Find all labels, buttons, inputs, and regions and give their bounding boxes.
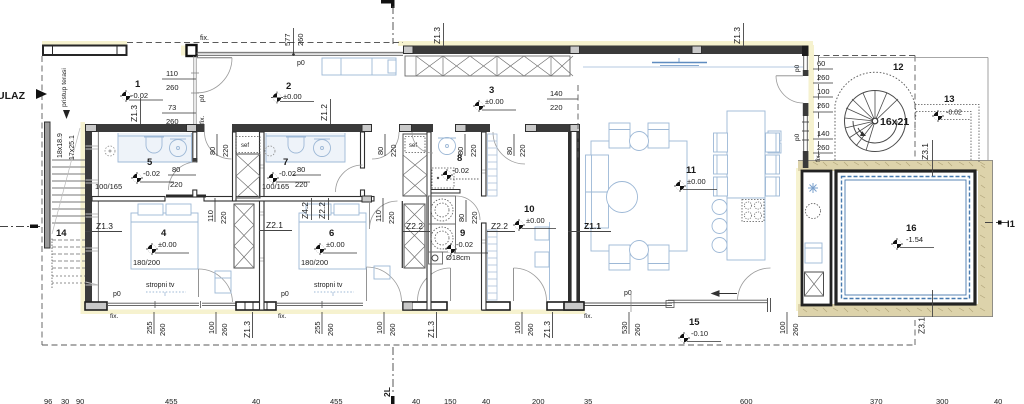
top side table: [630, 132, 649, 151]
svg-text:80: 80: [172, 165, 180, 174]
living room sofa group: [586, 123, 688, 270]
wall label Z1.3 room1: [129, 98, 141, 124]
toilet room7: [288, 137, 304, 153]
room 6 label: [301, 228, 357, 267]
svg-text:±0.00: ±0.00: [687, 177, 706, 186]
dim 140/220 kitchen pass: [547, 85, 578, 160]
corridor west glass mullion: [191, 56, 199, 124]
sliding direction arrow: [712, 291, 737, 296]
toilet room5: [146, 137, 162, 153]
wall label Z1.1: [568, 221, 611, 232]
sef closet near room 5: [233, 132, 261, 201]
svg-text:±0.00: ±0.00: [283, 92, 302, 101]
svg-text:9: 9: [460, 228, 465, 239]
door dim rotated room4: [206, 198, 228, 224]
dining chairs right: [766, 133, 780, 152]
svg-text:90: 90: [76, 397, 84, 404]
svg-text:100: 100: [207, 321, 216, 334]
svg-text:96: 96: [44, 397, 52, 404]
svg-text:Z3.1: Z3.1: [917, 317, 927, 334]
kitchen island: [712, 198, 765, 260]
room 3 label: [473, 85, 516, 112]
svg-text:140: 140: [817, 129, 830, 138]
bottom cut dimension chain: [44, 397, 1002, 404]
towel ladder hall10 wall: [488, 134, 498, 300]
svg-text:15: 15: [689, 317, 700, 328]
svg-text:Z2.2: Z2.2: [317, 202, 327, 219]
living east door arc to pool terrace: [738, 268, 771, 300]
svg-text:fix.: fix.: [278, 313, 287, 320]
south pier block 4: [547, 302, 583, 310]
wall label Z2.1: [259, 220, 292, 231]
svg-text:16x21: 16x21: [880, 116, 909, 128]
svg-text:80: 80: [457, 214, 466, 222]
svg-text:-0.02: -0.02: [452, 166, 469, 175]
svg-text:140: 140: [550, 89, 563, 98]
outdoor stair 14: [45, 122, 86, 288]
wall label Z1.2 corridor: [319, 99, 331, 124]
svg-text:-1.54: -1.54: [906, 235, 923, 244]
bathroom 8 fixtures: [432, 138, 456, 189]
door arc hall10 from corridor: [493, 132, 525, 164]
svg-text:260: 260: [817, 101, 830, 110]
drain box room9: [429, 252, 443, 264]
svg-text:-0.02: -0.02: [131, 91, 148, 100]
left sofa: [586, 155, 609, 228]
svg-text:100: 100: [817, 87, 830, 96]
dining table: [714, 111, 780, 198]
wall label Z2.2 b: [487, 221, 515, 232]
svg-text:2: 2: [286, 81, 291, 92]
door dim fraction bathroom7: [293, 165, 321, 189]
svg-text:16: 16: [906, 223, 917, 234]
area 13 dotted outline: [915, 94, 979, 162]
svg-text:80: 80: [376, 147, 385, 155]
floor drain room5: [105, 146, 115, 156]
south terrace door arc room4: [199, 269, 233, 302]
nightstand room4: [215, 271, 231, 293]
plot boundary dashed right vertical: [914, 317, 916, 345]
room 8 label: [441, 153, 480, 181]
east wall door leaf and arc: [776, 75, 803, 77]
wall between rooms 8 and 9: [431, 190, 460, 194]
svg-text:fix.: fix.: [200, 35, 209, 42]
svg-text:5: 5: [147, 157, 153, 168]
swimming pool 16: [836, 171, 975, 304]
nightstand room6: [374, 266, 390, 279]
svg-text:7: 7: [283, 157, 288, 168]
svg-text:Z2.2: Z2.2: [491, 221, 508, 231]
svg-text:260: 260: [817, 73, 830, 82]
sink room7: [314, 140, 331, 157]
south pier block 1: [236, 302, 276, 310]
kitchen sink on north wall: [652, 58, 707, 66]
svg-text:Z1.3: Z1.3: [432, 27, 442, 44]
insulation band west of pool tech room: [796, 168, 801, 311]
door arc hall78 from corridor: [372, 132, 399, 159]
interior wall between room4 zone and room6 zone: [260, 132, 265, 310]
section line 2L top: [381, 0, 395, 44]
svg-text:Z1.3: Z1.3: [542, 321, 552, 338]
svg-text:p0: p0: [297, 60, 305, 67]
south window 255 room6: [275, 301, 363, 308]
insulation band south wall bedroom wing: [81, 310, 585, 315]
svg-text:stropni tv: stropni tv: [146, 282, 175, 289]
svg-text:Z1.3: Z1.3: [242, 321, 252, 338]
kitchen tall units by east wall: [768, 131, 781, 153]
svg-text:200: 200: [532, 397, 545, 404]
top chair 1: [609, 123, 630, 148]
south dim chain labels: [110, 292, 800, 338]
svg-text:fix.: fix.: [199, 116, 206, 125]
bathroom 5 fixtures: [105, 133, 192, 162]
section line 2L bottom: [382, 347, 395, 404]
svg-text:Z2.1: Z2.1: [266, 220, 283, 230]
svg-text:180/200: 180/200: [133, 258, 160, 267]
svg-text:220: 220: [470, 211, 479, 224]
window ticks east wall: [802, 122, 809, 140]
svg-text:±0.00: ±0.00: [158, 240, 177, 249]
pristup terasi arrow: [61, 68, 70, 119]
east dims stack: [813, 59, 833, 162]
south pier block 3: [483, 302, 510, 310]
svg-text:Z1.3: Z1.3: [129, 105, 139, 122]
svg-text:Z2.2: Z2.2: [406, 221, 423, 231]
bed room 4: [131, 204, 198, 269]
living south sliding door track 2: [668, 298, 771, 312]
door arc room8 top: [412, 132, 433, 153]
bottom chair 1: [609, 245, 630, 270]
rug outline: [591, 141, 687, 251]
svg-text:110: 110: [206, 210, 215, 222]
window labels Z4.2 Z2.2 room6: [300, 198, 329, 220]
svg-text:260: 260: [326, 323, 335, 336]
svg-text:11: 11: [686, 165, 697, 176]
svg-text:220: 220: [550, 103, 563, 112]
north wall living wing: [403, 46, 809, 57]
shower room8 dashed: [432, 168, 454, 188]
svg-text:3: 3: [489, 85, 494, 96]
room 7 label: [262, 157, 310, 191]
svg-text:p0: p0: [199, 94, 206, 102]
svg-text:110: 110: [166, 69, 178, 78]
svg-text:-0.02: -0.02: [279, 169, 296, 178]
svg-text:6: 6: [329, 228, 334, 239]
kitchen counter front line: [583, 66, 803, 68]
fix labels south: [114, 317, 116, 319]
bed room 6: [299, 204, 366, 269]
north dims 110/260 73/260: [162, 69, 196, 126]
sink room8: [439, 138, 456, 155]
spiral staircase: [835, 72, 916, 160]
room 1 label: [120, 79, 163, 102]
svg-text:370: 370: [870, 397, 883, 404]
svg-text:ULAZ: ULAZ: [0, 90, 26, 102]
svg-text:4: 4: [161, 228, 167, 239]
cooktop: [742, 200, 764, 222]
plot boundary dashed left vertical: [41, 56, 43, 345]
svg-text:±0.00: ±0.00: [326, 240, 345, 249]
plot boundary dashed bottom horizontal: [42, 344, 915, 346]
svg-text:40: 40: [482, 397, 490, 404]
room 4 label: [133, 228, 189, 267]
plot boundary dashed top horizontal: [127, 42, 403, 44]
closet hall between 7 and 8: [403, 134, 427, 196]
terrace freestanding wall top-left: [43, 46, 127, 56]
svg-text:110: 110: [374, 210, 383, 222]
wall label Z1.3 top living: [732, 23, 744, 46]
section line I1 left: [0, 225, 42, 229]
wardrobe closet room4: [234, 204, 254, 268]
svg-text:Z1.3: Z1.3: [96, 221, 113, 231]
east wall of living room: [803, 56, 809, 168]
south terrace door arc room6: [367, 267, 402, 302]
door dim rotated room6: [374, 198, 396, 224]
svg-text:260: 260: [633, 323, 642, 336]
svg-text:530: 530: [620, 321, 629, 334]
svg-text:18x18.9: 18x18.9: [57, 133, 64, 158]
p0 labels south: [113, 12, 289, 298]
svg-text:73: 73: [168, 103, 176, 112]
living south sliding door track 1: [584, 301, 674, 308]
bathroom 7 fixtures: [265, 133, 345, 162]
south wall bedroom wing: corner pier: [85, 302, 107, 310]
pool surround stone band top: [798, 160, 993, 317]
wall under bathroom band (rooms5/7 south wall): [92, 195, 374, 203]
svg-text:260: 260: [166, 117, 179, 126]
svg-text:150: 150: [444, 397, 457, 404]
wall stub room5 east: [193, 132, 197, 162]
svg-text:fix.: fix.: [110, 313, 119, 320]
svg-text:12: 12: [893, 62, 904, 73]
coffee table: [607, 182, 638, 213]
bedroom wing north wall: [85, 124, 580, 132]
insulation band north terrace wall: [42, 41, 127, 46]
svg-text:220: 220: [389, 144, 398, 157]
svg-text:260: 260: [817, 143, 830, 152]
svg-text:-0.10: -0.10: [691, 329, 708, 338]
svg-text:260: 260: [296, 33, 305, 46]
room 10 label: [513, 204, 556, 231]
svg-text:40: 40: [412, 397, 420, 404]
svg-text:1: 1: [135, 79, 141, 90]
svg-text:sef: sef: [241, 143, 249, 149]
svg-text:2L: 2L: [382, 387, 392, 397]
svg-text:p0: p0: [281, 291, 289, 298]
svg-text:±0.00: ±0.00: [485, 97, 504, 106]
svg-text:100: 100: [778, 321, 787, 334]
entry door leaf and arc: [197, 58, 232, 93]
svg-text:180/200: 180/200: [301, 258, 328, 267]
svg-text:260: 260: [158, 323, 167, 336]
svg-text:35: 35: [584, 397, 592, 404]
svg-text:-0.02: -0.02: [143, 169, 160, 178]
svg-text:Ø18cm: Ø18cm: [446, 253, 470, 262]
svg-text:Z1.3: Z1.3: [732, 27, 742, 44]
svg-text:100/165: 100/165: [95, 182, 122, 191]
interior wall west of rooms 8/9: [427, 132, 431, 310]
bottom chair 2: [648, 245, 669, 270]
stropni tv room4: [146, 282, 186, 296]
door dim rotated hall78: [376, 134, 398, 157]
svg-text:80: 80: [505, 147, 514, 155]
svg-text:260: 260: [388, 323, 397, 336]
svg-text:220: 220: [170, 180, 183, 189]
svg-text:10: 10: [524, 204, 535, 215]
svg-text:pristup terasi: pristup terasi: [61, 68, 68, 107]
svg-text:fix.: fix.: [815, 154, 822, 163]
room 15 label: [678, 317, 721, 344]
wardrobe closet room6: [404, 204, 425, 268]
Z3.1 leader bottom: [917, 290, 933, 334]
insulation band south wall living wing: [560, 310, 585, 315]
svg-text:220: 220: [387, 211, 396, 224]
svg-text:255: 255: [145, 321, 154, 334]
svg-text:stropni tv: stropni tv: [314, 282, 343, 289]
bathroom7 door arc: [336, 165, 363, 192]
section line I1 right: [985, 219, 1016, 230]
door arc room9: [456, 196, 480, 220]
roof edge thin line right: [818, 57, 988, 59]
door dim rotated room8: [456, 134, 478, 157]
svg-text:Z1.2: Z1.2: [319, 104, 329, 121]
door dim rotated room9: [457, 200, 479, 224]
svg-text:220: 220: [219, 211, 228, 224]
interior wall west of hall 10: [482, 132, 487, 310]
svg-text:30: 30: [61, 397, 69, 404]
south door arc room9 hall: [418, 268, 451, 301]
pool tech room: [802, 171, 831, 305]
svg-text:455: 455: [330, 397, 343, 404]
floor drain room7: [265, 146, 275, 156]
room 16 label: [891, 223, 934, 250]
svg-text:220: 220: [518, 144, 527, 157]
room 11 label: [674, 165, 717, 192]
svg-text:I1: I1: [1007, 219, 1016, 230]
svg-text:455: 455: [165, 397, 178, 404]
insulation band north wall living wing: [398, 41, 813, 46]
sink room5: [170, 140, 187, 157]
door dim rotated hall10: [505, 134, 527, 157]
svg-text:100: 100: [513, 321, 522, 334]
svg-text:-0.02: -0.02: [456, 240, 473, 249]
svg-text:Z1.1: Z1.1: [584, 221, 601, 231]
svg-text:Z3.1: Z3.1: [920, 143, 930, 160]
door arc room5 hall from corridor: [205, 132, 232, 159]
north glass wall of corridor: [197, 52, 404, 55]
south pier block 2: [403, 302, 447, 310]
svg-text:100/165: 100/165: [262, 182, 289, 191]
corridor bench: [322, 58, 396, 75]
top chair 2: [648, 123, 669, 148]
svg-text:220: 220: [295, 180, 308, 189]
bar stools: [712, 200, 727, 215]
svg-text:260: 260: [166, 83, 179, 92]
svg-text:220: 220: [469, 144, 478, 157]
svg-text:577: 577: [283, 33, 292, 46]
svg-text:±0.00: ±0.00: [526, 216, 545, 225]
svg-text:-0.02: -0.02: [946, 110, 962, 117]
insulation band east wall: [809, 45, 815, 170]
p0 fix labels left of pier: [199, 94, 206, 124]
svg-text:220: 220: [221, 144, 230, 157]
p0 labels east wall: [794, 64, 801, 141]
svg-text:p0: p0: [794, 133, 801, 141]
room 9 label: [445, 228, 488, 262]
svg-text:Z1.3: Z1.3: [426, 321, 436, 338]
wall label Z1.3 top kitchen: [432, 23, 444, 46]
svg-text:260: 260: [220, 323, 229, 336]
wall right of bathroom 7: [361, 132, 365, 201]
svg-text:255: 255: [313, 321, 322, 334]
north dim 577/260: [283, 28, 305, 56]
south door arc hall10: [514, 268, 547, 301]
svg-text:p0: p0: [113, 291, 121, 298]
svg-text:80: 80: [208, 147, 217, 155]
svg-text:80: 80: [297, 165, 305, 174]
covered area dashed vertical at stair: [914, 56, 916, 161]
ULAZ entrance label: [0, 89, 47, 102]
Z3.1 leader top: [920, 140, 933, 176]
bottom side table: [630, 241, 649, 260]
svg-text:40: 40: [252, 397, 260, 404]
svg-text:Z4.2: Z4.2: [300, 202, 310, 219]
dining chairs left: [714, 133, 728, 152]
insulation band west wall: [81, 122, 86, 313]
south window 255 room4: [107, 301, 199, 308]
stropni tv room6: [314, 282, 354, 296]
svg-text:13: 13: [944, 94, 955, 105]
svg-text:100: 100: [375, 321, 384, 334]
covered area dashed top right: [814, 55, 915, 57]
svg-text:14: 14: [56, 228, 67, 239]
kitchen upper cabinets X band: [405, 56, 573, 76]
svg-text:60: 60: [817, 59, 825, 68]
svg-text:40: 40: [994, 397, 1002, 404]
wall label Z2.2 a: [402, 221, 430, 232]
svg-text:300: 300: [936, 397, 949, 404]
door dim rotated hall5: [208, 134, 230, 157]
hall10 cabinets: [535, 222, 550, 300]
door arc bathroom5: [169, 162, 197, 190]
sliding door bar bathroom5: [166, 195, 206, 198]
svg-text:260: 260: [526, 323, 535, 336]
room 2 label: [271, 81, 314, 104]
room 5 label: [95, 157, 174, 191]
door dim fraction bathroom5: [168, 165, 196, 189]
svg-text:260: 260: [791, 323, 800, 336]
svg-text:17x25.1: 17x25.1: [69, 135, 76, 160]
washing machines room 9: [429, 196, 456, 264]
wall between hall10 and living room: [564, 132, 584, 310]
entry pier: [181, 46, 187, 56]
west exterior wall: [85, 132, 98, 310]
svg-text:600: 600: [740, 397, 753, 404]
svg-text:80: 80: [456, 147, 465, 155]
bedroom6 north door leaf and arc: [370, 201, 403, 268]
south window 100 room4: [201, 301, 240, 308]
svg-text:p0: p0: [794, 64, 801, 72]
wall label Z1.3 west: [85, 221, 122, 232]
svg-text:fix.: fix.: [584, 313, 593, 320]
